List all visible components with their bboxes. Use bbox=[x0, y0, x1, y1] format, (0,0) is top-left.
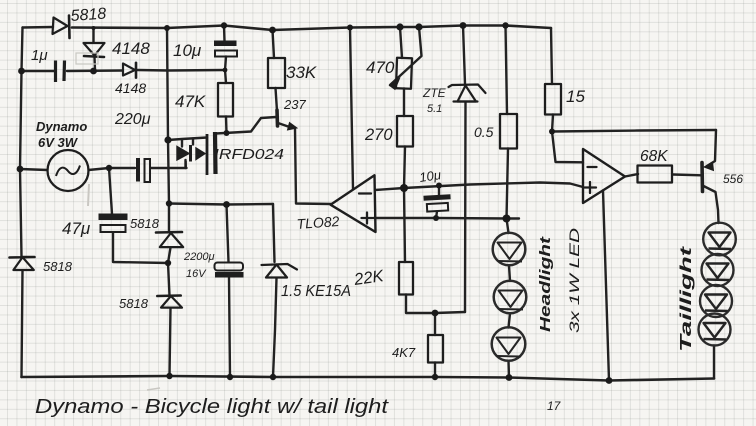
svg-text:5818: 5818 bbox=[119, 296, 149, 311]
svg-text:237: 237 bbox=[283, 97, 306, 112]
svg-text:1μ: 1μ bbox=[31, 47, 48, 64]
svg-text:Headlight: Headlight bbox=[538, 235, 554, 332]
svg-text:10μ: 10μ bbox=[173, 41, 202, 60]
svg-text:17: 17 bbox=[547, 399, 562, 413]
svg-text:Dynamo: Dynamo bbox=[36, 119, 87, 134]
svg-text:47μ: 47μ bbox=[62, 219, 91, 238]
svg-text:4148: 4148 bbox=[115, 80, 146, 96]
svg-text:220μ: 220μ bbox=[114, 111, 151, 128]
svg-text:10μ: 10μ bbox=[418, 167, 441, 185]
svg-text:6V 3W: 6V 3W bbox=[38, 135, 79, 150]
svg-text:0.5: 0.5 bbox=[474, 124, 494, 140]
svg-text:Dynamo - Bicycle light w/ tail: Dynamo - Bicycle light w/ tail light bbox=[35, 396, 390, 418]
svg-text:15: 15 bbox=[566, 87, 585, 106]
svg-text:33K: 33K bbox=[286, 63, 317, 82]
svg-text:TLO82: TLO82 bbox=[296, 213, 340, 232]
svg-text:Taillight: Taillight bbox=[678, 246, 695, 352]
svg-text:3x 1W LED: 3x 1W LED bbox=[566, 228, 582, 333]
svg-text:5818: 5818 bbox=[70, 6, 107, 25]
svg-text:22K: 22K bbox=[352, 267, 386, 289]
svg-text:5818: 5818 bbox=[130, 216, 160, 231]
svg-text:2200μ: 2200μ bbox=[183, 251, 215, 263]
svg-text:5.1: 5.1 bbox=[427, 103, 442, 115]
svg-text:68K: 68K bbox=[640, 148, 668, 165]
svg-text:47K: 47K bbox=[175, 92, 206, 111]
svg-text:1.5 KE15A: 1.5 KE15A bbox=[281, 283, 351, 300]
svg-text:4148: 4148 bbox=[112, 39, 150, 58]
svg-text:16V: 16V bbox=[186, 268, 207, 280]
svg-text:270: 270 bbox=[364, 126, 393, 144]
svg-text:ZTE: ZTE bbox=[422, 86, 447, 100]
svg-text:4K7: 4K7 bbox=[392, 345, 416, 360]
svg-text:556: 556 bbox=[723, 172, 743, 186]
svg-text:5818: 5818 bbox=[43, 259, 73, 274]
svg-text:IRFD024: IRFD024 bbox=[214, 147, 284, 163]
svg-text:470: 470 bbox=[366, 58, 395, 77]
